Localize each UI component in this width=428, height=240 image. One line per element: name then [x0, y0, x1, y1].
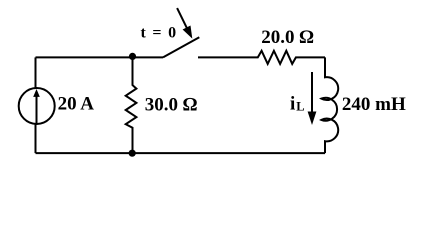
- svg-text:20 A: 20 A: [58, 94, 95, 115]
- svg-text:240 mH: 240 mH: [342, 94, 406, 115]
- svg-text:20.0 Ω: 20.0 Ω: [261, 27, 314, 48]
- svg-text:30.0 Ω: 30.0 Ω: [145, 95, 198, 116]
- svg-text:t = 0: t = 0: [141, 25, 178, 42]
